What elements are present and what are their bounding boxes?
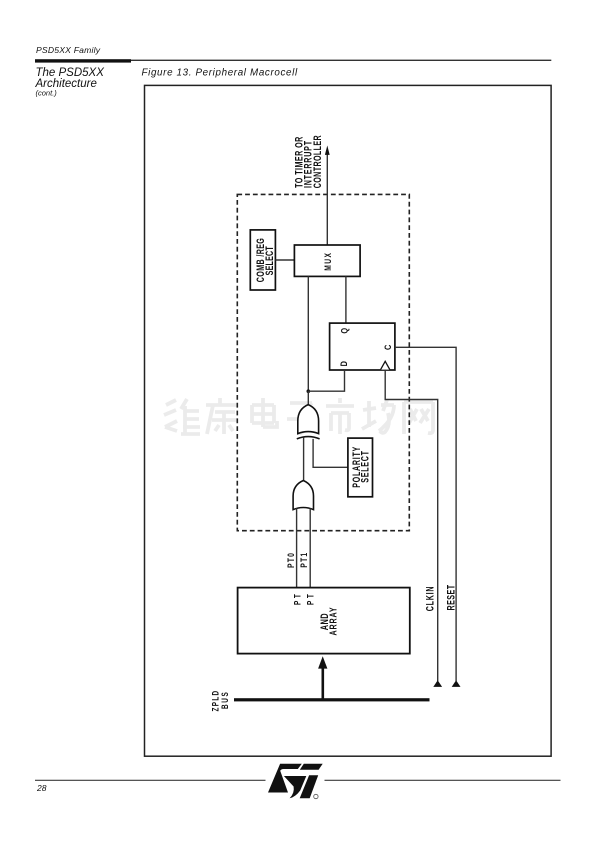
wire: XOR output to junction bbox=[307, 391, 309, 405]
polarity select box bbox=[348, 438, 373, 497]
svg-text:BUS: BUS bbox=[220, 691, 230, 709]
wire: comb/reg select to MUX bbox=[275, 259, 294, 261]
flip-flop clock triangle bbox=[381, 361, 390, 369]
svg-text:RESET: RESET bbox=[445, 584, 457, 610]
wire: OR output to XOR left input bbox=[303, 438, 305, 481]
wire: FF clock to clkin line bbox=[385, 370, 438, 681]
svg-text:28: 28 bbox=[36, 783, 47, 793]
wire: PT0 into OR bbox=[296, 508, 298, 587]
mux U1 bbox=[294, 245, 360, 276]
zpld bus thick line bbox=[234, 698, 430, 701]
svg-text:Q: Q bbox=[339, 327, 350, 333]
wire: FF C output to reset line bbox=[395, 347, 456, 681]
header rule thick segment bbox=[35, 59, 131, 62]
clkin arrow terminal bbox=[433, 680, 442, 687]
svg-text:PT1: PT1 bbox=[299, 552, 309, 568]
flip-flop bbox=[330, 323, 395, 370]
node junction dot bbox=[307, 389, 311, 393]
watermark bbox=[164, 398, 433, 434]
footer rule right bbox=[325, 780, 561, 781]
xor gate bbox=[297, 405, 320, 439]
svg-text:(cont.): (cont.) bbox=[36, 89, 58, 98]
svg-text:SELECT: SELECT bbox=[359, 450, 371, 482]
and array bbox=[238, 588, 410, 654]
svg-text:CONTROLLER: CONTROLLER bbox=[311, 135, 323, 188]
wire: MUX output to timer/interrupt bbox=[326, 155, 328, 246]
wire: MUX input from FF Q bbox=[345, 276, 347, 323]
svg-text:C: C bbox=[382, 345, 393, 350]
figure frame bbox=[145, 85, 552, 756]
ST logo bbox=[268, 764, 323, 799]
dashed macrocell boundary bbox=[237, 194, 409, 530]
svg-text:MUX: MUX bbox=[323, 252, 333, 271]
svg-text:PT: PT bbox=[306, 592, 316, 605]
header rule thin segment bbox=[131, 60, 551, 61]
svg-text:ARRAY: ARRAY bbox=[327, 607, 339, 636]
svg-text:PSD5XX Family: PSD5XX Family bbox=[36, 45, 101, 55]
svg-text:PT: PT bbox=[292, 592, 302, 605]
arrowhead to controller bbox=[325, 146, 330, 155]
wire: PT1 into OR bbox=[309, 508, 311, 587]
wire: MUX input from XOR (left drop) bbox=[307, 276, 309, 391]
svg-text:Figure 13. Peripheral Macrocel: Figure 13. Peripheral Macrocell bbox=[142, 68, 298, 79]
svg-text:SELECT: SELECT bbox=[263, 246, 275, 275]
or gate bbox=[293, 481, 313, 510]
bus to and-array arrow bbox=[322, 666, 325, 699]
svg-text:CLKIN: CLKIN bbox=[424, 586, 436, 611]
footer rule left bbox=[35, 780, 266, 781]
reset arrow terminal bbox=[452, 680, 461, 687]
wire: junction to D input bbox=[308, 370, 344, 391]
svg-text:PT0: PT0 bbox=[286, 552, 296, 568]
wire: polarity select to XOR right input bbox=[313, 439, 348, 467]
comb/reg select box bbox=[250, 230, 275, 290]
svg-text:D: D bbox=[338, 361, 349, 366]
